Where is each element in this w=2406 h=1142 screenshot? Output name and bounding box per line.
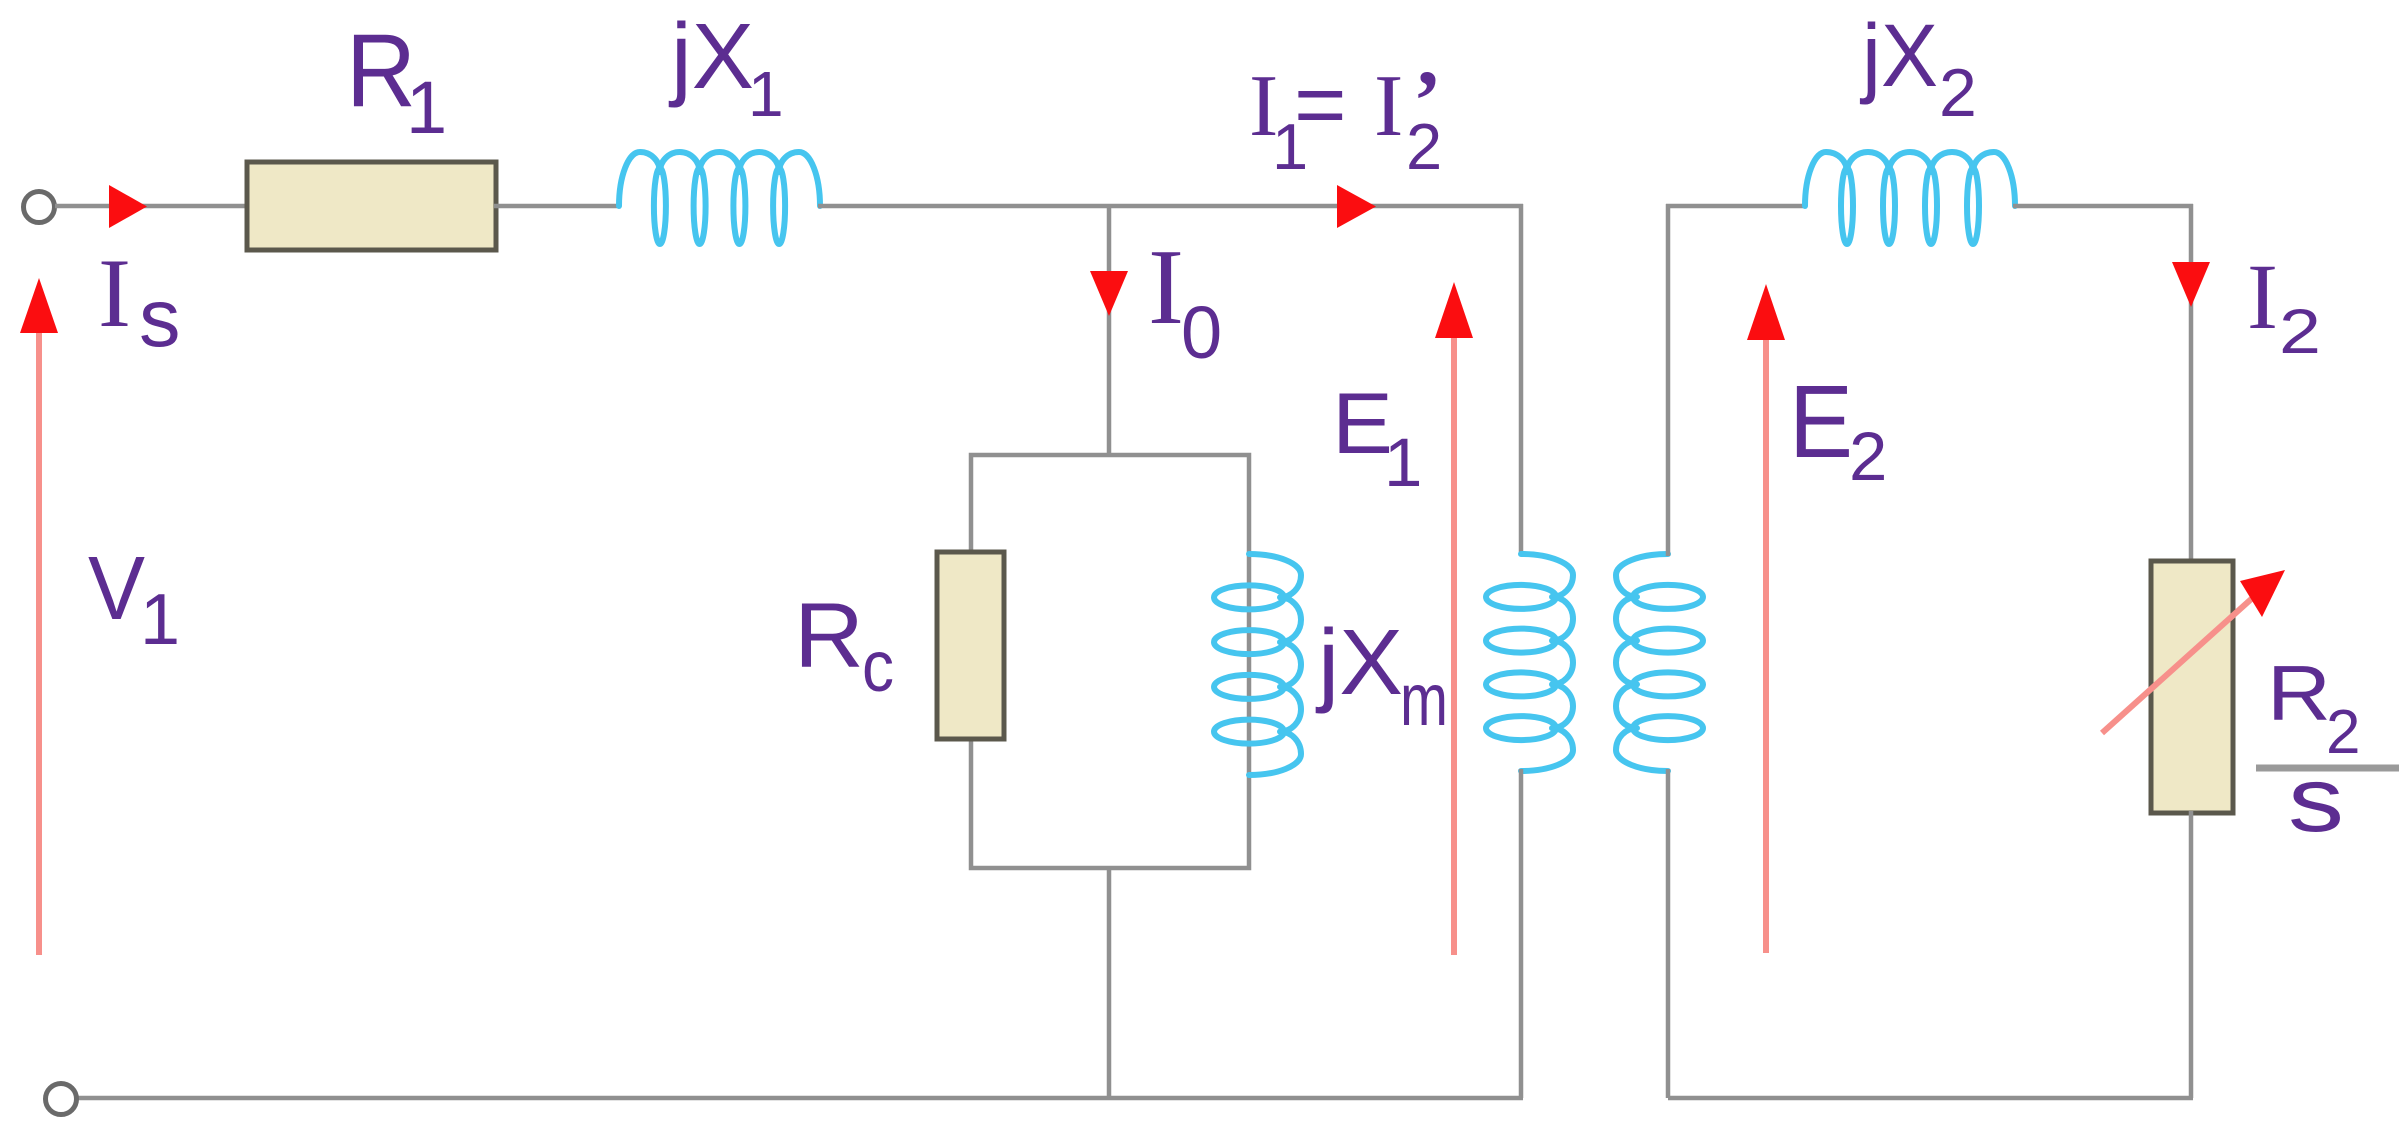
wire: bottom rail secondary: [1668, 1096, 2193, 1101]
inductor jX2 (rotor leakage reactance): [1805, 152, 2015, 206]
wire: transformer primary to bottom rail: [1519, 769, 1524, 1098]
wire: I0 branch down from node: [1107, 204, 1112, 457]
svg-text:R: R: [794, 585, 864, 687]
svg-text:=: =: [1294, 55, 1347, 155]
svg-text:jX: jX: [1859, 5, 1938, 105]
svg-text:1: 1: [140, 580, 180, 660]
wire: right vertical down to R2/s: [2189, 204, 2194, 563]
svg-text:V: V: [88, 539, 145, 639]
arrow V1 (salmon line, red head, up): [36, 310, 42, 955]
svg-text:2: 2: [1939, 55, 1977, 131]
svg-text:2: 2: [2279, 297, 2321, 367]
svg-text:s: s: [2288, 749, 2344, 851]
inductor jX1 (stator leakage reactance): [619, 152, 820, 206]
wire: R2/s to bottom rail: [2189, 811, 2194, 1098]
wire: jX1 to primary-side node: [818, 204, 1523, 209]
svg-text:jX: jX: [668, 4, 754, 108]
svg-text:m: m: [1400, 658, 1448, 741]
arrow: I0 current direction (down): [1090, 271, 1128, 316]
wire: jX2 to right vertical: [2013, 204, 2193, 209]
terminal: top-left input: [24, 192, 55, 223]
arrow E2 (salmon line, red head, up): [1763, 315, 1769, 953]
transformer secondary winding: [1616, 554, 1668, 771]
svg-text:I: I: [2247, 246, 2278, 349]
svg-text:2: 2: [1849, 418, 1887, 495]
svg-text:1: 1: [748, 58, 784, 130]
arrow E1 (salmon line, red head, up): [1451, 315, 1457, 955]
svg-text:E: E: [1789, 364, 1853, 479]
svg-text:s: s: [139, 271, 181, 364]
wire: secondary vertical top: [1666, 204, 1671, 556]
svg-text:jX: jX: [1315, 610, 1403, 714]
node box: Rc parallel jXm branch rectangle: [971, 455, 1249, 868]
wire: top-left from terminal to R1: [55, 204, 249, 209]
arrow: I1 current direction on top wire: [1337, 185, 1376, 228]
resistor Rc (core loss): [937, 552, 1004, 739]
arrow: I2 current direction (down) on right vertical: [2172, 262, 2210, 307]
svg-text:R: R: [2267, 649, 2331, 737]
wire: primary vertical (node down to transformer primary): [1519, 204, 1524, 556]
inductor jXm (magnetizing reactance): [1249, 554, 1301, 775]
wire: R1 to jX1: [494, 204, 621, 209]
wire: bottom rail primary: [77, 1096, 1523, 1101]
wire: secondary top rail: [1666, 204, 1807, 209]
svg-text:2: 2: [1406, 110, 1442, 183]
variable resistor R2/s (rotor resistance / slip): [2151, 561, 2233, 813]
arrow: Is current direction (red, rightward) on top wire: [109, 185, 147, 228]
svg-text:I: I: [98, 239, 131, 348]
svg-text:I: I: [1148, 228, 1184, 347]
terminal: bottom-left input: [46, 1084, 77, 1115]
svg-text:0: 0: [1181, 291, 1222, 374]
svg-text:1: 1: [406, 66, 447, 149]
transformer primary winding: [1521, 554, 1573, 771]
wire: secondary vertical bottom to rail: [1666, 769, 1671, 1098]
svg-text:I: I: [1374, 58, 1403, 155]
svg-text:c: c: [862, 627, 894, 707]
svg-text:1: 1: [1384, 424, 1422, 501]
resistor R1 (stator resistance): [247, 162, 496, 250]
wire: box bottom to bottom rail: [1107, 866, 1112, 1098]
arrow: variable-resistor diagonal (salmon line, red head): [2102, 593, 2258, 733]
